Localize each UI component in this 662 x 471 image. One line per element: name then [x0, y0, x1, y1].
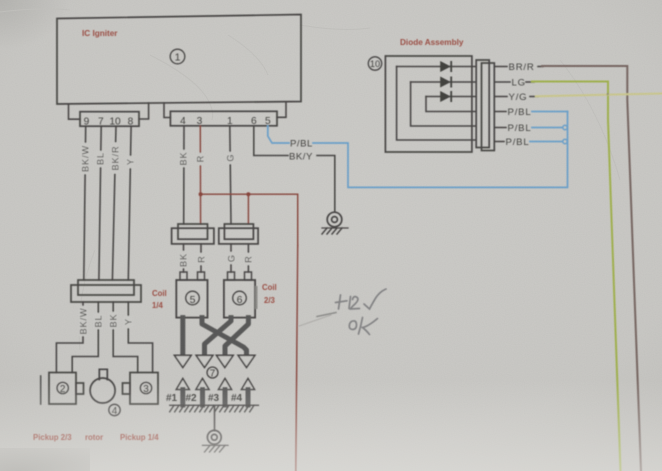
spark plug wire coil6 to plug2 (crossing)	[205, 318, 232, 353]
spark plug wire coil5 to plug4 (crossing)	[202, 318, 247, 353]
connector J2 bracket	[164, 102, 286, 117]
wire BK/Y from pin6	[254, 126, 288, 156]
spark plug wire coil6 to plug3 (crossing)	[225, 318, 248, 353]
diode D2	[440, 77, 452, 88]
diode assembly housing U2	[385, 56, 472, 152]
wire R pin3 down (red)	[199, 126, 201, 224]
label BL lower	[93, 313, 103, 329]
wire diode1 cathode line	[397, 66, 477, 68]
wire P/BL 1 (blue)	[532, 111, 568, 113]
IC Igniter box U1	[57, 15, 301, 105]
label R (pin3 wire)	[195, 153, 205, 165]
ground bus hatching under plugs	[170, 404, 259, 406]
wire BK pin4 to coil connector	[183, 126, 185, 224]
wire diode1 anode loop	[397, 67, 477, 141]
coil5 terminal stubs	[180, 272, 205, 280]
wire Y/G run (yellow)	[530, 96, 538, 98]
wire LG run (light green)	[526, 81, 534, 83]
plug cap 2 (triangle)	[196, 355, 213, 367]
pickup coil 3 (component 3)	[123, 373, 159, 405]
junction dot R at pin3 wire	[199, 192, 203, 196]
connector J2 (pins 4 3 1 6 5)	[170, 111, 277, 126]
connector J3 pickup harness (mated pair)	[71, 280, 141, 302]
wire G J5 to coil6	[230, 244, 232, 272]
wire R J5 to coil6	[247, 244, 249, 272]
ground G2 (engine ground circle)	[203, 430, 229, 452]
wire G pin1 to coil connector	[230, 126, 231, 224]
label Coil 1/4	[152, 289, 167, 310]
coil6 terminal stubs	[228, 272, 252, 280]
rotor (component 4)	[90, 369, 115, 403]
plug cap 3 (triangle)	[216, 355, 233, 367]
spark plug #1	[166, 379, 189, 406]
label R (coil5 in)	[196, 253, 206, 265]
label G (pin1 wire)	[225, 152, 235, 164]
wire red branch node to coil2 and to vertical run	[201, 194, 298, 246]
terminal Y/G	[494, 96, 507, 98]
label BK/W	[80, 143, 90, 174]
terminal P/BL 2	[494, 127, 506, 129]
handwritten +12V OK annotation	[336, 289, 387, 335]
wire BR/R run (brown/red)	[538, 66, 543, 68]
junction dot R at coil2 drop	[246, 192, 250, 196]
label R (coil6 in)	[243, 253, 253, 265]
pencil note pointer line	[299, 315, 331, 326]
node 4 (circled)	[109, 404, 120, 417]
wire diode2 cathode line	[411, 81, 477, 83]
spark plug #2	[186, 379, 210, 406]
label Y	[125, 156, 135, 168]
label Coil 2/3	[262, 283, 277, 305]
ground G1 (frame ground circle)	[322, 212, 348, 234]
node 10 (circled)	[368, 57, 381, 70]
label BK (coil5 in)	[178, 251, 188, 268]
diode D3	[440, 91, 452, 102]
spark plug #4	[231, 379, 255, 406]
wire BK/Y label to ground	[317, 156, 335, 213]
paper creases (decorative)	[0, 9, 620, 350]
wire plugs common to ground	[214, 406, 216, 431]
wire BK/W pin9 to pickup connector	[84, 126, 86, 280]
diode D1	[440, 61, 452, 72]
connector J6 diode assembly (mated pair)	[476, 60, 494, 151]
wire R long vertical run to bottom	[296, 245, 298, 471]
wire diode3 cathode line	[426, 96, 476, 98]
wire Y below J3	[128, 302, 152, 373]
label Y lower	[123, 316, 133, 328]
terminal LG	[494, 81, 510, 83]
plug cap 4 (triangle)	[238, 355, 255, 367]
label BK/R	[110, 143, 120, 174]
wire BL pin7 to pickup connector	[99, 126, 101, 280]
wire P/BL 3 (blue, hooked end)	[530, 141, 563, 143]
terminal P/BL 1	[494, 111, 506, 113]
wire diode2 anode loop	[411, 82, 477, 126]
ignition coil 5 (Coil 1/4)	[176, 280, 207, 318]
wire P/BL 2 (blue, hooked end)	[532, 127, 563, 129]
ignition coil 6 (Coil 2/3)	[224, 280, 258, 318]
label BK (pin4 wire)	[178, 150, 188, 167]
spark plug wire coil5 to plug1	[180, 318, 185, 352]
wire Y pin8 to pickup connector	[128, 126, 131, 280]
wire P/BL from pin5 (blue)	[268, 126, 289, 143]
terminal BR/R	[494, 66, 507, 68]
wire diode3 anode loop	[426, 97, 476, 112]
wire P/BL label to diode assembly (blue)	[313, 112, 568, 188]
label BK lower	[108, 312, 118, 329]
spark plug #3	[208, 379, 232, 406]
pen mark left edge	[40, 376, 42, 404]
label BL	[95, 151, 105, 167]
node 7 (circled)	[207, 367, 218, 379]
wire BK J4 to coil5	[183, 244, 185, 272]
wire BK/R pin10 to pickup connector	[112, 126, 116, 280]
connector J5 coil2/3 (mated pair)	[219, 224, 258, 244]
wire BL below J3	[72, 302, 98, 373]
connector J4 coil1/4 (mated pair)	[172, 224, 214, 244]
bottom paper lightening	[0, 380, 662, 471]
pickup coil 2 (component 2)	[49, 373, 84, 405]
wire R J4 to coil5	[200, 244, 202, 272]
label BK/W lower	[78, 306, 88, 336]
wire BK/W below J3	[56, 302, 83, 373]
plug cap 1 (triangle)	[174, 355, 191, 367]
node 1 (circled)	[170, 49, 185, 64]
connector J1 bracket	[69, 103, 149, 119]
label G (coil6 in)	[226, 252, 236, 264]
terminal P/BL 3	[494, 141, 504, 143]
connector J1 (pins 9 7 10 8)	[80, 112, 139, 127]
wire BK below J3	[113, 302, 138, 373]
